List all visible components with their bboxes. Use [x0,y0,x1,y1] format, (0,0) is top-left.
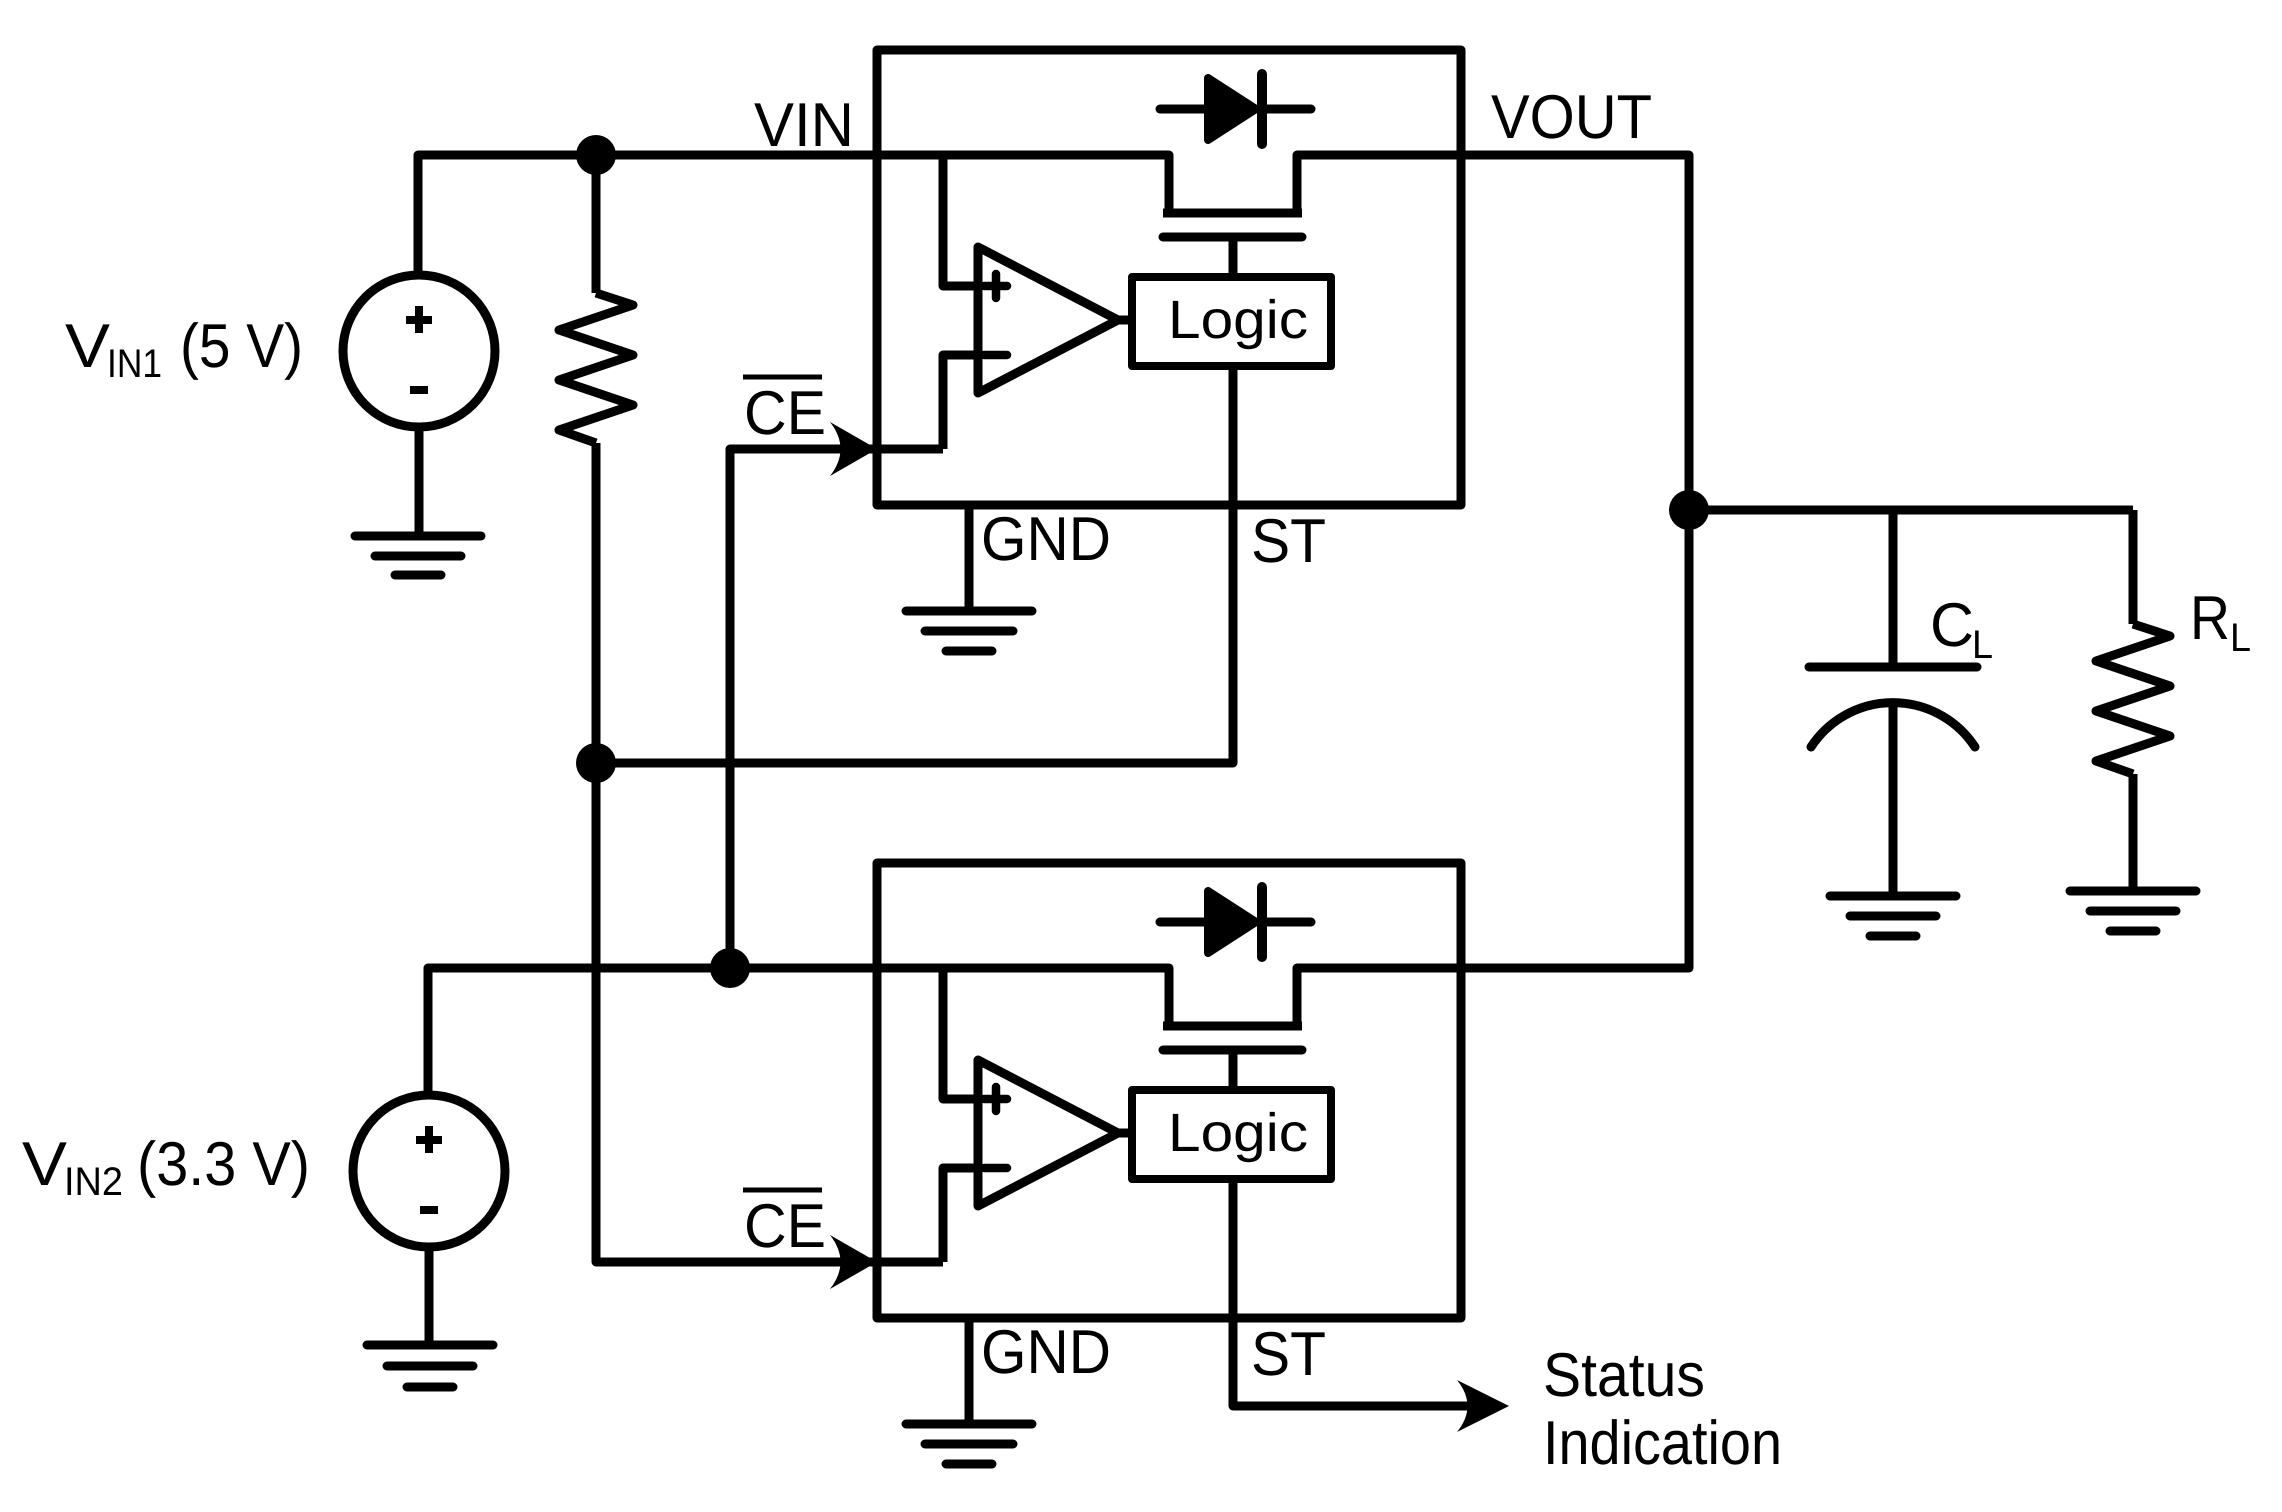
wire VOUT1 to load node [1461,155,1689,510]
svg-text:CE: CE [744,1192,826,1261]
svg-text:GND: GND [981,505,1111,574]
wire load node down to VOUT2 [1461,510,1689,968]
source V2 minus symbol [420,1206,438,1214]
op-amp U1A minus symbol [984,351,1007,360]
wire V1 negative terminal to ground [415,426,424,533]
overline of CE label (U1) [743,375,822,380]
pin CE2 arrowhead [830,1235,877,1289]
U2 VIN inner rail and FET source step [877,968,1169,1026]
wire Q1 gate to logic [1229,237,1238,277]
diode D1 anode wire [1160,105,1204,114]
op-amp U2A comparator triangle [978,1060,1118,1206]
wire CL to ground [1889,704,1898,893]
svg-text:ST: ST [1251,1320,1326,1389]
wire V2 negative terminal to ground [425,1246,434,1342]
svg-text:V: V [22,1130,68,1199]
svg-text:V: V [65,312,111,381]
op-amp U1A plus symbol [984,274,1007,298]
wire node A to CE2 [596,763,877,1262]
svg-text:Status: Status [1543,1341,1705,1410]
capacitor CL top plate [1809,663,1977,672]
U2 FET drain step and VOUT inner rail [1297,968,1461,1026]
U1 box [877,50,1461,505]
source V2 circle [353,1095,505,1247]
node VIN junction dot [576,135,616,175]
logic block U2 [1132,1090,1331,1179]
svg-text:CE: CE [744,379,826,448]
diode D2 triangle [1208,891,1256,953]
source V2 plus symbol [416,1126,442,1153]
node VOUT junction dot [1669,490,1709,530]
op-amp U1A comparator triangle [978,247,1118,393]
svg-text:Logic: Logic [1168,1103,1308,1163]
wire Q2 gate to logic [1229,1050,1238,1090]
wire U2 comparator output [1118,1129,1132,1138]
svg-text:IN2: IN2 [64,1160,123,1204]
diode D2 anode wire [1160,918,1204,927]
wire U1 non-inverting input from VIN rail [943,155,978,286]
U1 VIN inner rail and FET source step [877,155,1169,213]
wire U1 CE pin entry [877,445,943,454]
wire U1 inverting input from CE [943,355,978,449]
ground V2 [367,1345,493,1387]
transistor Q1 channel [1163,209,1302,218]
arrowhead status indication [1457,1380,1509,1432]
wire ST2 to status indication [1233,1318,1500,1406]
diode D1 triangle [1208,78,1256,140]
resistor R1 [559,293,633,443]
wire VIN node to resistor R1 [592,155,601,293]
svg-text:R: R [2190,584,2230,653]
wire U2 logic to ST pin [1229,1179,1238,1318]
pin U1 GND wire [965,505,974,608]
op-amp U2A minus symbol [984,1164,1007,1173]
diode D2 cathode wire [1262,918,1311,927]
resistor RL [2096,624,2170,774]
transistor Q1 gate bar [1163,233,1302,242]
wire load rail [1689,506,2133,515]
ground RL [2070,891,2196,931]
pin CE arrowhead [830,422,877,476]
svg-text:ST: ST [1251,507,1326,576]
wire R1 to node A [592,443,601,763]
diode D1 cathode bar [1257,74,1267,144]
svg-text:Indication: Indication [1543,1409,1782,1478]
svg-text:IN1: IN1 [107,342,162,386]
wire to capacitor CL [1889,510,1898,663]
node B junction dot [710,948,750,988]
svg-text:L: L [2230,616,2251,660]
svg-text:C: C [1930,591,1974,660]
op-amp U2A plus symbol [984,1087,1007,1111]
logic block U1 [1132,277,1331,366]
wire V2 positive terminal to VIN2 rail [428,968,877,1096]
node A junction dot [576,743,616,783]
ground CL [1830,896,1956,936]
wire U1 comparator output [1118,316,1132,325]
source V1 circle [343,275,495,427]
wire RL to ground [2129,774,2138,888]
U1 FET drain step and VOUT inner rail [1297,155,1461,213]
svg-text:GND: GND [981,1318,1111,1387]
diode D2 cathode bar [1257,887,1267,957]
ground U2 GND [906,1424,1032,1464]
svg-text:(5 V): (5 V) [180,312,303,381]
wire ST1 to node A [596,505,1233,763]
transistor Q2 gate bar [1163,1046,1302,1055]
source V1 minus symbol [410,386,428,394]
wire U2 CE pin entry [877,1258,943,1267]
ground U1 GND [906,611,1032,651]
wire U2 inverting input from CE [943,1168,978,1262]
wire U2 non-inverting input from VIN rail [943,968,978,1099]
source V1 plus symbol [406,306,432,333]
transistor Q2 channel [1163,1022,1302,1031]
pin U2 GND wire [965,1318,974,1421]
svg-text:VIN: VIN [754,91,854,160]
svg-text:(3.3 V): (3.3 V) [137,1130,310,1199]
wire to resistor RL [2129,510,2138,624]
svg-text:VOUT: VOUT [1491,83,1652,152]
svg-text:Logic: Logic [1168,290,1308,350]
wire U1 logic to ST pin [1229,366,1238,505]
wire V1 positive terminal to VIN rail [418,155,877,276]
overline of CE label (U2) [743,1188,822,1193]
capacitor CL curved plate [1811,703,1975,747]
diode D1 cathode wire [1262,105,1311,114]
U2 box [877,863,1461,1318]
wire CE1 riser to node B [730,449,877,968]
svg-text:L: L [1972,623,1993,667]
ground V1 [355,536,481,575]
